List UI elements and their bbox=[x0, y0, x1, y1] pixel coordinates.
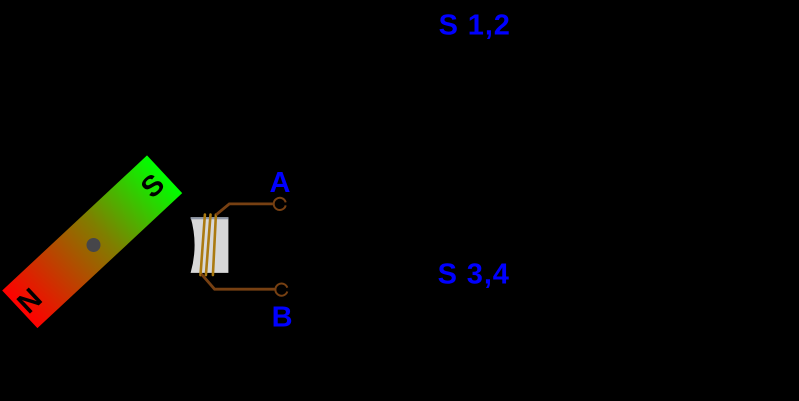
coil turn 2 bbox=[206, 215, 211, 276]
svg-text:S 1,2: S 1,2 bbox=[439, 9, 511, 41]
svg-text:B: B bbox=[272, 301, 293, 333]
magnet (rotating bar magnet, N-S) bbox=[2, 155, 182, 328]
terminal A (open circle) bbox=[274, 198, 286, 210]
coil turn 3 bbox=[213, 215, 216, 276]
wire: coil top to terminal A bbox=[216, 204, 273, 215]
coil core top edge bbox=[191, 217, 229, 219]
magnet pivot dot bbox=[84, 235, 104, 255]
svg-text:A: A bbox=[270, 167, 291, 199]
wire: coil bottom to terminal B bbox=[201, 274, 274, 289]
coil turn 1 bbox=[201, 215, 205, 276]
svg-text:S 3,4: S 3,4 bbox=[438, 258, 510, 290]
coil core (bobbin) bbox=[191, 217, 229, 273]
terminal B (open circle) bbox=[275, 284, 287, 296]
